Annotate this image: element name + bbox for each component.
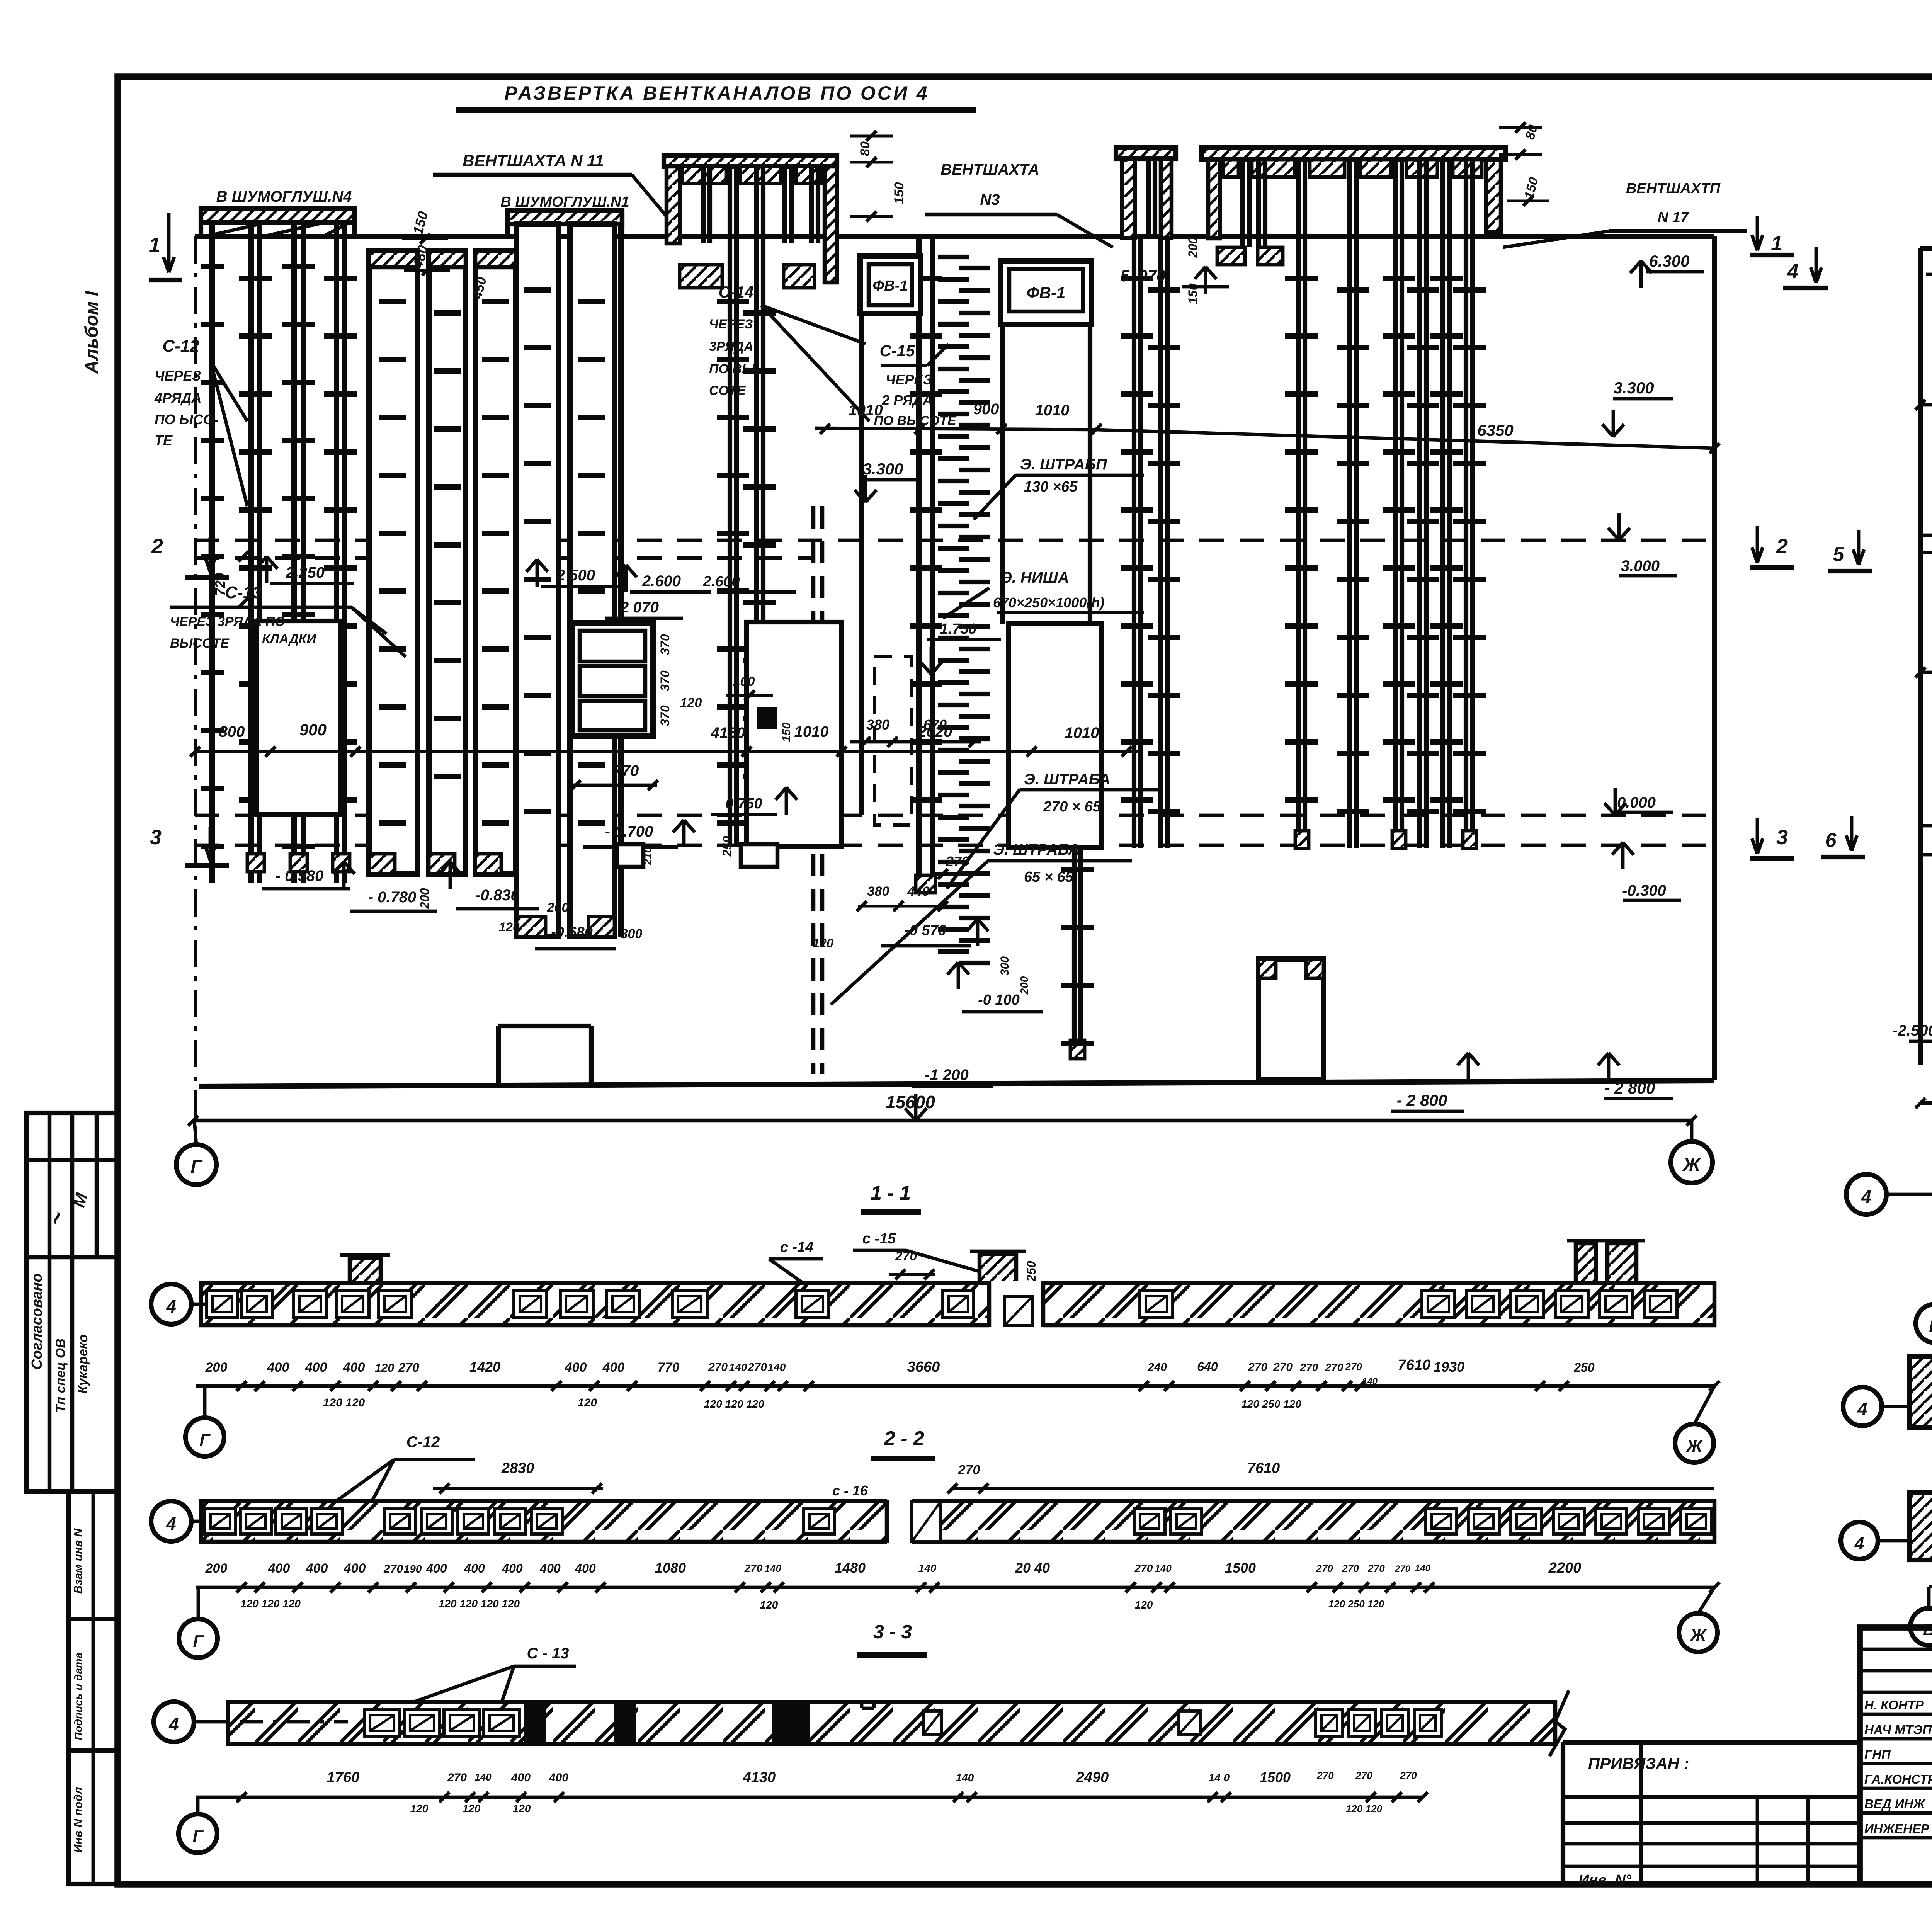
level dash line 3.000 left (195, 539, 1714, 542)
svg-text:С - 13: С - 13 (527, 1645, 569, 1662)
svg-text:В ШУМОГЛУШ.N1: В ШУМОГЛУШ.N1 (500, 194, 629, 210)
vent shaft N3 above roof (1116, 147, 1176, 159)
svg-text:270: 270 (1367, 1563, 1385, 1574)
svg-text:4: 4 (166, 1296, 176, 1316)
stub walls above section 1-1 right (1576, 1243, 1596, 1283)
section 6-6 corner block (1910, 1492, 1932, 1560)
FV-1 box 2 (1001, 261, 1092, 325)
svg-text:0.750: 0.750 (725, 796, 762, 812)
stub wall above section 1-1 mid (980, 1254, 1016, 1283)
axis circle Ж section 1-1 (1675, 1424, 1714, 1463)
svg-text:270: 270 (895, 1249, 917, 1264)
svg-text:270: 270 (1342, 1563, 1359, 1574)
svg-text:Г: Г (190, 1157, 203, 1177)
svg-text:КЛАДКИ: КЛАДКИ (262, 632, 317, 646)
svg-text:ВЫСОТЕ: ВЫСОТЕ (170, 636, 230, 651)
svg-text:Э. ШТРАБП: Э. ШТРАБП (1020, 456, 1107, 473)
svg-text:1: 1 (1771, 232, 1782, 255)
svg-text:2 070: 2 070 (620, 599, 659, 616)
section 2-2 strip (201, 1501, 1714, 1542)
svg-text:190: 190 (404, 1563, 422, 1575)
svg-text:200: 200 (547, 900, 569, 915)
deep pier rectangle lower right (1259, 959, 1323, 1080)
elec niche dashed rectangle (874, 657, 911, 825)
section 3-3 dim chain (196, 1796, 1423, 1799)
svg-text:ГНП: ГНП (1864, 1747, 1891, 1762)
level dash 3.000 right elev (1920, 534, 1932, 537)
dim 80 150 at group right wall (1499, 126, 1542, 129)
svg-text:ТЕ: ТЕ (155, 432, 173, 448)
svg-text:Э. ШТРАБА: Э. ШТРАБА (1024, 771, 1110, 788)
stub wall above section 1-1 left (350, 1258, 381, 1283)
section 2-2 S-16 box (912, 1501, 941, 1542)
svg-text:3.300: 3.300 (862, 460, 903, 478)
silencer N4 cap hatched (201, 209, 355, 223)
svg-text:400: 400 (539, 1561, 561, 1575)
svg-text:3: 3 (1776, 826, 1788, 849)
privyazan table (1561, 1742, 1565, 1884)
svg-text:270: 270 (708, 1361, 728, 1374)
svg-text:ЧЕРЕЗ 3РЯДА ПО: ЧЕРЕЗ 3РЯДА ПО (170, 614, 285, 629)
svg-text:300: 300 (621, 927, 643, 941)
svg-text:С-14: С-14 (718, 283, 753, 301)
svg-text:120 250 120: 120 250 120 (1328, 1598, 1384, 1610)
svg-text:N 17: N 17 (1658, 209, 1689, 226)
vent shaft N11 top bar (664, 155, 837, 167)
ticks duct channels C (524, 287, 551, 293)
svg-text:400: 400 (502, 1561, 523, 1575)
S-15 tie column (938, 255, 969, 259)
svg-text:120: 120 (513, 1803, 531, 1815)
svg-text:400: 400 (267, 1360, 289, 1375)
svg-text:900: 900 (299, 721, 327, 739)
svg-text:770: 770 (658, 1360, 680, 1375)
svg-text:4150: 4150 (711, 724, 745, 742)
svg-text:ЧЕРЕЗ: ЧЕРЕЗ (886, 372, 932, 388)
svg-text:2 РЯДА: 2 РЯДА (881, 392, 932, 408)
dim 15600 overall (193, 1119, 1692, 1123)
duct channel B3 (475, 251, 516, 874)
svg-text:ВЕНТШАХТА: ВЕНТШАХТА (940, 161, 1039, 178)
svg-text:6.300: 6.300 (1649, 252, 1689, 270)
svg-text:Взам инв N: Взам инв N (72, 1528, 85, 1594)
big group ties (1285, 276, 1318, 281)
svg-text:с -14: с -14 (780, 1239, 814, 1255)
big group bottom feet (1295, 831, 1309, 849)
svg-text:640: 640 (1197, 1360, 1218, 1374)
svg-text:Г: Г (199, 1430, 211, 1449)
svg-text:2.600: 2.600 (642, 573, 681, 590)
svg-text:ГА.КОНСТР: ГА.КОНСТР (1864, 1772, 1932, 1786)
duct channel C2 (570, 224, 614, 937)
svg-text:3.300: 3.300 (1613, 379, 1654, 397)
svg-text:4: 4 (166, 1514, 176, 1534)
svg-text:1500: 1500 (1260, 1769, 1291, 1785)
masonry pier rectangle 900 (256, 621, 340, 815)
svg-text:15600: 15600 (886, 1092, 935, 1112)
vent shaft N11 deep columns (728, 167, 732, 846)
svg-text:4: 4 (168, 1714, 179, 1734)
svg-text:270: 270 (1300, 1361, 1318, 1373)
section 1-1 strip (201, 1283, 1714, 1325)
right elevation left edge (1918, 248, 1923, 1065)
svg-text:ПО ЫСО-: ПО ЫСО- (155, 412, 219, 427)
axis circle В under 6-6 (1910, 1608, 1932, 1645)
duct channel B1 with cap (369, 251, 417, 874)
svg-text:800: 800 (219, 723, 245, 740)
svg-text:120: 120 (680, 696, 702, 710)
svg-text:80: 80 (858, 141, 872, 156)
svg-text:2: 2 (1776, 535, 1788, 558)
svg-text:4: 4 (1787, 260, 1799, 283)
svg-text:720: 720 (212, 573, 228, 596)
svg-text:150: 150 (892, 182, 906, 204)
svg-text:-1 200: -1 200 (925, 1066, 968, 1083)
svg-text:900: 900 (973, 401, 999, 418)
duct channel C1 (517, 224, 558, 937)
svg-text:370: 370 (658, 634, 672, 655)
svg-text:ПО ВЫСОТЕ: ПО ВЫСОТЕ (874, 413, 957, 428)
svg-text:- 0.780: - 0.780 (368, 889, 417, 906)
svg-text:Ж: Ж (1682, 1155, 1701, 1175)
dim 80 150 near shaft N11 (850, 135, 893, 138)
svg-text:С-12: С-12 (162, 337, 199, 355)
big duct group top bar (1202, 147, 1505, 160)
svg-text:Н. КОНТР: Н. КОНТР (1864, 1698, 1924, 1712)
svg-text:200: 200 (1186, 237, 1200, 258)
svg-text:1.750: 1.750 (940, 621, 976, 637)
svg-text:20 40: 20 40 (1015, 1560, 1050, 1576)
svg-text:6350: 6350 (1477, 421, 1513, 439)
big group right hatched wall (1486, 160, 1501, 232)
svg-text:770: 770 (613, 762, 639, 779)
axis circle 4 section 5-5 (1843, 1387, 1882, 1426)
svg-text:270: 270 (958, 1463, 980, 1477)
section 6-6 dim chain (1929, 1585, 1932, 1588)
svg-text:1 - 1: 1 - 1 (871, 1182, 911, 1204)
svg-text:140: 140 (1362, 1376, 1378, 1387)
svg-text:120 250 120: 120 250 120 (1241, 1398, 1301, 1410)
svg-text:N3: N3 (980, 191, 1000, 208)
section 3-3 small boxes (923, 1711, 942, 1734)
svg-text:120 120 120: 120 120 120 (240, 1598, 301, 1610)
svg-text:270: 270 (1345, 1361, 1362, 1372)
svg-text:4: 4 (1854, 1534, 1864, 1553)
svg-text:270: 270 (1316, 1563, 1333, 1574)
svg-text:250: 250 (1573, 1361, 1595, 1374)
svg-text:120 120: 120 120 (1346, 1803, 1383, 1815)
svg-text:1010: 1010 (794, 723, 829, 740)
svg-text:Инв. N°: Инв. N° (1578, 1872, 1632, 1888)
svg-text:140: 140 (1415, 1563, 1431, 1573)
svg-text:С-13: С-13 (225, 583, 262, 602)
svg-text:ПО ВЫ-: ПО ВЫ- (709, 362, 759, 376)
axis circle Г section 2-2 (179, 1619, 218, 1658)
svg-text:1010: 1010 (1035, 402, 1070, 419)
svg-text:3: 3 (150, 826, 162, 849)
svg-text:150: 150 (780, 723, 793, 742)
svg-text:200: 200 (205, 1360, 228, 1375)
svg-text:400: 400 (426, 1561, 447, 1575)
section 3-3 top notch (860, 1702, 864, 1708)
svg-text:1010: 1010 (849, 402, 883, 419)
svg-text:400: 400 (305, 1360, 327, 1375)
svg-text:ФВ-1: ФВ-1 (1027, 284, 1065, 302)
svg-text:ИНЖЕНЕР: ИНЖЕНЕР (1864, 1821, 1930, 1836)
svg-text:1080: 1080 (655, 1560, 686, 1576)
svg-text:5: 5 (1833, 543, 1845, 566)
svg-text:270: 270 (1248, 1361, 1267, 1374)
title block signature table (1860, 1628, 1932, 1884)
svg-text:2200: 2200 (1548, 1560, 1582, 1576)
dim chain 1010 900 1010 6350 (815, 428, 1097, 430)
svg-text:ЧЕРЕЗ: ЧЕРЕЗ (155, 368, 201, 384)
svg-text:Согласовано: Согласовано (29, 1273, 45, 1370)
svg-text:4130: 4130 (743, 1769, 776, 1786)
axis circle Ж left elevation (1671, 1141, 1713, 1183)
small step boxes bottom (617, 844, 643, 867)
left elevation bottom wall line -2.800 (199, 1081, 1714, 1087)
svg-text:ВЕД ИНЖ: ВЕД ИНЖ (1864, 1797, 1926, 1811)
svg-text:С-15: С-15 (879, 342, 915, 360)
level dash 0.000 right elev (1920, 824, 1932, 828)
svg-text:7610: 7610 (1398, 1357, 1431, 1373)
axis circle 4 section 1-1 (151, 1284, 191, 1324)
svg-text:440: 440 (907, 884, 930, 899)
svg-text:250: 250 (720, 836, 734, 857)
axis circle 4 section 4-4 (1846, 1174, 1886, 1214)
svg-text:120 120 120: 120 120 120 (704, 1398, 764, 1410)
svg-text:370: 370 (658, 705, 672, 726)
svg-text:2490: 2490 (1076, 1769, 1109, 1786)
svg-text:С-12: С-12 (406, 1434, 440, 1451)
svg-text:-0.300: -0.300 (1622, 882, 1666, 899)
svg-text:120 120 120 120: 120 120 120 120 (439, 1598, 520, 1610)
black square marker (757, 707, 777, 729)
vent shaft N11 feet below roof (680, 265, 722, 288)
svg-text:140: 140 (1155, 1563, 1172, 1574)
svg-text:200: 200 (205, 1561, 228, 1576)
svg-text:400: 400 (575, 1561, 596, 1575)
svg-text:-0 100: -0 100 (978, 992, 1020, 1008)
axis circle Г left elevation (176, 1145, 216, 1185)
svg-text:300: 300 (998, 956, 1011, 976)
svg-text:140: 140 (768, 1361, 786, 1373)
svg-text:65 × 65: 65 × 65 (1024, 869, 1074, 885)
vent shaft N11 short columns (701, 167, 706, 243)
svg-text:400: 400 (464, 1561, 485, 1575)
svg-text:Г: Г (193, 1632, 204, 1651)
wall niche opening 1010 (747, 622, 842, 846)
duct A feet hatched (247, 854, 264, 872)
svg-text:В ШУМОГЛУШ.N4: В ШУМОГЛУШ.N4 (216, 188, 352, 205)
svg-text:240: 240 (1147, 1361, 1167, 1374)
duct pairs N3 below roof (1132, 238, 1136, 848)
svg-text:1420: 1420 (469, 1359, 500, 1375)
svg-text:2.250: 2.250 (286, 564, 325, 581)
vent shaft N11 left wall (667, 167, 680, 243)
svg-text:- 0 580: - 0 580 (276, 867, 324, 884)
duct N11 ties (717, 299, 749, 304)
axis circle 4 section 6-6 (1841, 1522, 1878, 1559)
axis circle 4 section 2-2 (151, 1501, 191, 1541)
svg-text:- 2 800: - 2 800 (1605, 1079, 1655, 1097)
svg-text:1500: 1500 (1225, 1560, 1256, 1576)
svg-text:Альбом I: Альбом I (82, 290, 102, 374)
svg-text:100: 100 (733, 674, 755, 689)
svg-text:4: 4 (1857, 1399, 1867, 1419)
svg-text:2 - 2: 2 - 2 (884, 1427, 924, 1450)
svg-text:270: 270 (747, 1361, 767, 1374)
duct channel B2 (429, 251, 466, 874)
svg-text:7610: 7610 (1247, 1460, 1280, 1476)
svg-text:Э. НИША: Э. НИША (1001, 569, 1069, 586)
dim chain 610 1940 1160 1940 950 (1920, 671, 1932, 674)
svg-text:120: 120 (1135, 1599, 1153, 1611)
section 3-3 strip (228, 1702, 1555, 1744)
svg-text:РАЗВЕРТКА ВЕНТКАНАЛОВ ПО ОС: РАЗВЕРТКА ВЕНТКАНАЛОВ ПО ОСИ 4 (504, 82, 929, 104)
section 5-5 corner block (1910, 1357, 1932, 1427)
svg-text:ПРИВЯЗАН :: ПРИВЯЗАН : (1588, 1754, 1689, 1772)
svg-text:270: 270 (744, 1562, 763, 1574)
svg-text:1480: 1480 (835, 1560, 866, 1576)
svg-text:140: 140 (764, 1563, 781, 1574)
svg-text:4РЯДА: 4РЯДА (154, 390, 201, 406)
svg-text:ФВ-1: ФВ-1 (873, 278, 908, 294)
svg-text:2.600: 2.600 (702, 573, 740, 590)
svg-text:400: 400 (511, 1771, 531, 1784)
svg-text:Подпись и дата: Подпись и дата (72, 1653, 84, 1740)
level dash line -0.300 left (195, 844, 1714, 847)
svg-text:-0.830: -0.830 (475, 887, 519, 904)
svg-text:270: 270 (398, 1361, 419, 1374)
svg-text:Тп спец ОВ: Тп спец ОВ (53, 1338, 68, 1413)
duct A ties ticks (201, 264, 224, 269)
FV-1 box 1 (860, 256, 920, 314)
svg-text:270: 270 (1273, 1361, 1293, 1374)
svg-text:2: 2 (151, 535, 163, 558)
svg-text:ЧЕРЕЗ: ЧЕРЕЗ (709, 317, 753, 332)
left elevation axis line to circle Г (194, 236, 197, 1139)
svg-text:-0.680: -0.680 (551, 924, 593, 940)
svg-text:270: 270 (1325, 1361, 1344, 1373)
section 1-1 small mid box (1005, 1296, 1032, 1325)
axis circle Г section 1-1 (185, 1418, 224, 1456)
vent shaft N11 right wall (825, 167, 837, 282)
svg-text:120: 120 (410, 1803, 429, 1815)
axis circle В under 4-4 (1916, 1304, 1932, 1343)
svg-text:270: 270 (1400, 1770, 1417, 1781)
left elevation roof line 6.300 (195, 234, 1714, 239)
svg-text:с - 16: с - 16 (832, 1483, 868, 1498)
svg-text:400: 400 (268, 1561, 290, 1576)
svg-text:400: 400 (344, 1561, 366, 1576)
axis circle 4 section 3-3 (154, 1702, 194, 1742)
dim chain 1400 1010 4190 (1920, 403, 1932, 407)
svg-text:3 - 3: 3 - 3 (873, 1621, 912, 1643)
svg-text:- 0.700: - 0.700 (605, 823, 653, 840)
svg-text:2830: 2830 (501, 1460, 534, 1476)
level dash line 0.000 left (195, 814, 1714, 817)
svg-text:ВЕНТШАХТА N 11: ВЕНТШАХТА N 11 (463, 151, 604, 170)
svg-text:270 × 65: 270 × 65 (1043, 799, 1101, 815)
svg-text:с -15: с -15 (862, 1231, 896, 1247)
svg-text:270: 270 (447, 1771, 467, 1784)
svg-text:670×250×1000(h): 670×250×1000(h) (993, 595, 1104, 611)
vent shaft N11 inner caps (682, 167, 726, 184)
duct line C3 (618, 224, 624, 937)
svg-text:670: 670 (923, 717, 947, 733)
svg-text:400: 400 (602, 1360, 625, 1375)
section 2-2 dim chain (196, 1586, 1716, 1589)
silencer N1 cap hatched (507, 211, 622, 224)
svg-text:120: 120 (578, 1396, 597, 1409)
svg-text:2 500: 2 500 (556, 567, 595, 584)
svg-text:200: 200 (1018, 976, 1030, 995)
svg-text:140: 140 (729, 1361, 747, 1373)
svg-text:1760: 1760 (327, 1769, 360, 1786)
svg-text:3660: 3660 (907, 1359, 940, 1375)
duct pair F (916, 236, 922, 875)
svg-text:4: 4 (1861, 1187, 1871, 1207)
svg-text:400: 400 (565, 1360, 587, 1375)
svg-text:380: 380 (866, 717, 889, 733)
svg-text:Э. ШТРАБА: Э. ШТРАБА (993, 841, 1079, 858)
svg-text:В: В (1929, 1317, 1932, 1336)
section 3-3 break right (1549, 1690, 1569, 1756)
svg-text:Г: Г (192, 1827, 204, 1846)
big group long duct pairs (1296, 160, 1301, 848)
svg-text:120: 120 (760, 1599, 778, 1611)
svg-text:140: 140 (918, 1562, 937, 1574)
svg-text:1: 1 (149, 233, 160, 257)
doorway opening bottom left (496, 1026, 501, 1087)
left margin approval table (26, 1113, 118, 1492)
svg-text:Ж: Ж (1690, 1626, 1707, 1645)
svg-text:130 ×65: 130 ×65 (1024, 479, 1078, 495)
level dash -0.300 right elev (1920, 853, 1932, 857)
duct pair G (1072, 847, 1077, 1059)
svg-text:Инв N подл: Инв N подл (72, 1787, 85, 1853)
svg-text:1010: 1010 (1065, 724, 1099, 742)
big group short ducts with feet (1240, 160, 1245, 247)
section 3-3 dash axis in strip (240, 1720, 348, 1724)
svg-text:Кукареко: Кукареко (76, 1334, 90, 1394)
svg-text:5. 970: 5. 970 (1121, 267, 1166, 285)
duct pair A2 (291, 223, 297, 883)
big group inner caps (1223, 160, 1238, 177)
shtraba dashed vertical pair (811, 506, 816, 1074)
svg-text:140: 140 (474, 1771, 492, 1783)
svg-text:270: 270 (1395, 1564, 1411, 1574)
svg-text:6: 6 (1825, 829, 1837, 852)
duct pair A1 (248, 223, 254, 883)
svg-text:120: 120 (463, 1803, 481, 1815)
svg-text:СОТЕ: СОТЕ (709, 383, 746, 398)
big group left hatched wall (1208, 160, 1220, 238)
svg-text:400: 400 (549, 1771, 568, 1784)
svg-text:400: 400 (306, 1561, 328, 1576)
duct pair A3 (334, 223, 339, 883)
svg-text:120: 120 (375, 1362, 394, 1374)
svg-text:3РЯДА: 3РЯДА (709, 339, 753, 354)
svg-text:120: 120 (499, 920, 520, 934)
svg-text:200: 200 (418, 888, 432, 909)
svg-text:270: 270 (1134, 1562, 1153, 1574)
dim chain 800 900 4150 1010 2020 1010 (195, 750, 1140, 753)
svg-text:140: 140 (956, 1772, 974, 1784)
svg-text:120: 120 (813, 936, 833, 950)
